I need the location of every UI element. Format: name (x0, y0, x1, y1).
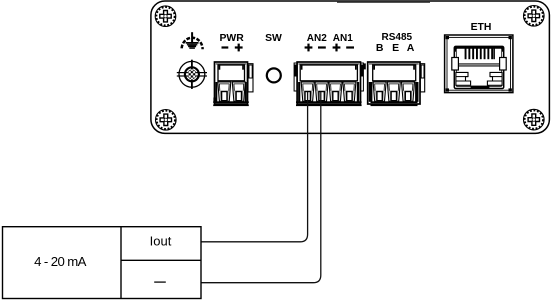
AN2 polarity + (305, 44, 313, 52)
pushbutton SW (267, 68, 281, 82)
svg-text:4 - 20 mA: 4 - 20 mA (34, 254, 87, 269)
panel top edge mount marks (337, 1, 430, 3)
screw bottom-left (156, 110, 177, 131)
connector ETH RJ45 jack (445, 35, 513, 93)
screw top-left (155, 6, 176, 27)
divider Iout/common (121, 259, 201, 261)
svg-text:SW: SW (265, 33, 282, 44)
divider sensor/terminals (120, 227, 122, 299)
PWR polarity - (222, 46, 229, 48)
device front panel (151, 1, 550, 133)
wire from Iout to AN2 + (201, 92, 308, 242)
connector RS485 3-pin terminal (368, 62, 425, 106)
common terminal dash (154, 281, 166, 282)
screw top-right (524, 6, 545, 27)
sensor box 4-20 mA (3, 227, 202, 299)
wire from common to AN2 - (201, 92, 321, 283)
svg-text:AN1: AN1 (333, 33, 353, 44)
antenna connector (SMA) (177, 60, 207, 89)
svg-text:B: B (376, 42, 384, 54)
svg-text:ETH: ETH (471, 22, 492, 33)
svg-text:PWR: PWR (219, 33, 244, 44)
AN1 polarity - (346, 46, 354, 48)
AN1 polarity + (333, 44, 341, 52)
connector AN2/AN1 4-pin terminal (294, 62, 366, 106)
connector PWR 2-pin terminal (213, 62, 253, 106)
antenna symbol (182, 32, 203, 49)
PWR polarity + (235, 44, 243, 52)
svg-text:E: E (392, 42, 399, 54)
svg-text:AN2: AN2 (307, 33, 327, 44)
svg-text:A: A (407, 42, 415, 54)
svg-text:Iout: Iout (150, 234, 172, 249)
AN2 polarity - (318, 46, 326, 48)
screw bottom-right (524, 109, 545, 130)
